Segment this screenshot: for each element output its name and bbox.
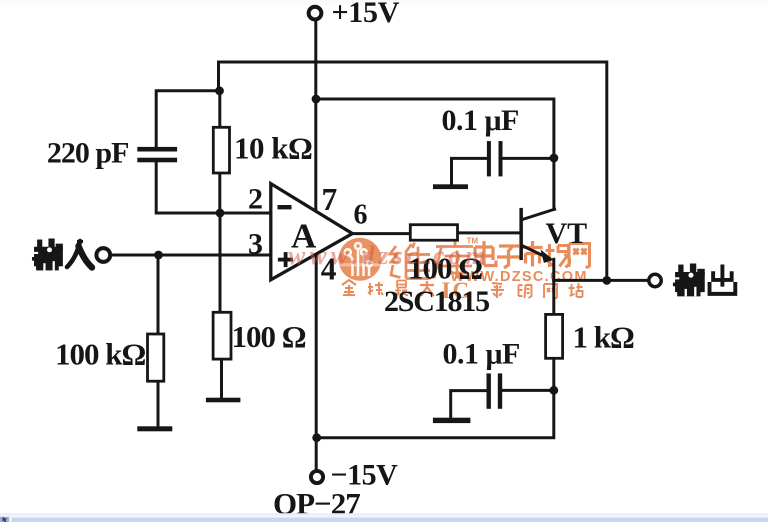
svg-text:+15V: +15V: [332, 0, 400, 29]
svg-text:2: 2: [248, 183, 263, 216]
svg-text:1 kΩ: 1 kΩ: [573, 320, 634, 355]
svg-text:2SC1815: 2SC1815: [384, 285, 489, 318]
svg-text:6: 6: [354, 200, 368, 231]
svg-text:3: 3: [248, 228, 263, 261]
svg-text:VT: VT: [546, 217, 588, 250]
svg-text:7: 7: [322, 182, 338, 217]
svg-text:10 kΩ: 10 kΩ: [234, 131, 312, 166]
svg-text:www.dzsc.com: www.dzsc.com: [288, 241, 490, 270]
svg-text:OP−27: OP−27: [273, 486, 360, 521]
svg-text:100 kΩ: 100 kΩ: [55, 337, 145, 372]
svg-text:0.1 μF: 0.1 μF: [442, 104, 519, 137]
svg-text:0.1 μF: 0.1 μF: [443, 337, 520, 370]
svg-text:220 pF: 220 pF: [47, 136, 129, 169]
svg-text:100 Ω: 100 Ω: [232, 319, 306, 354]
